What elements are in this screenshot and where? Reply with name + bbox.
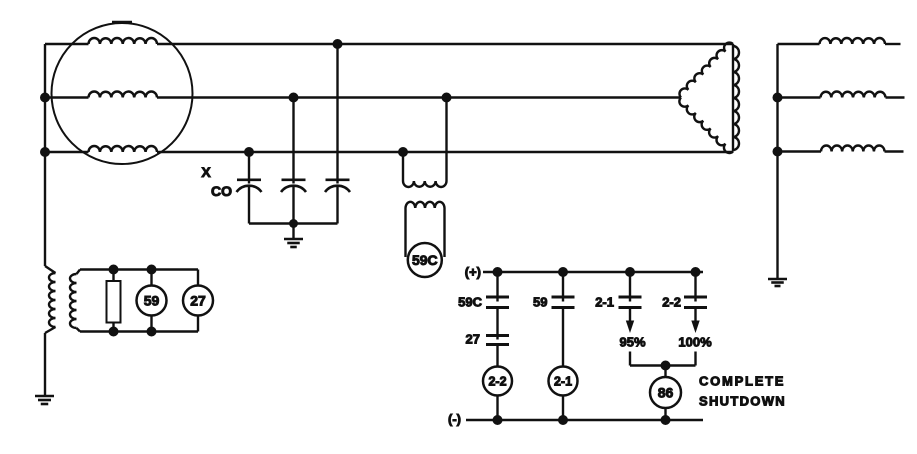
svg-text:X: X [201,164,211,180]
svg-text:59: 59 [144,293,160,309]
svg-text:(+): (+) [465,265,481,280]
svg-text:2-1: 2-1 [595,295,614,310]
svg-text:CO: CO [211,183,232,199]
svg-text:59: 59 [533,295,547,310]
svg-text:27: 27 [190,293,206,309]
svg-text:2-2: 2-2 [662,295,681,310]
svg-text:59C: 59C [412,252,438,268]
svg-text:86: 86 [658,385,674,401]
svg-text:59C: 59C [458,295,482,310]
svg-text:SHUTDOWN: SHUTDOWN [699,394,786,409]
svg-text:2-1: 2-1 [554,375,572,389]
svg-text:100%: 100% [678,335,712,350]
svg-text:95%: 95% [619,335,645,350]
svg-text:2-2: 2-2 [488,375,506,389]
svg-text:COMPLETE: COMPLETE [699,374,785,389]
svg-text:27: 27 [466,332,480,347]
svg-text:(-): (-) [448,412,461,427]
